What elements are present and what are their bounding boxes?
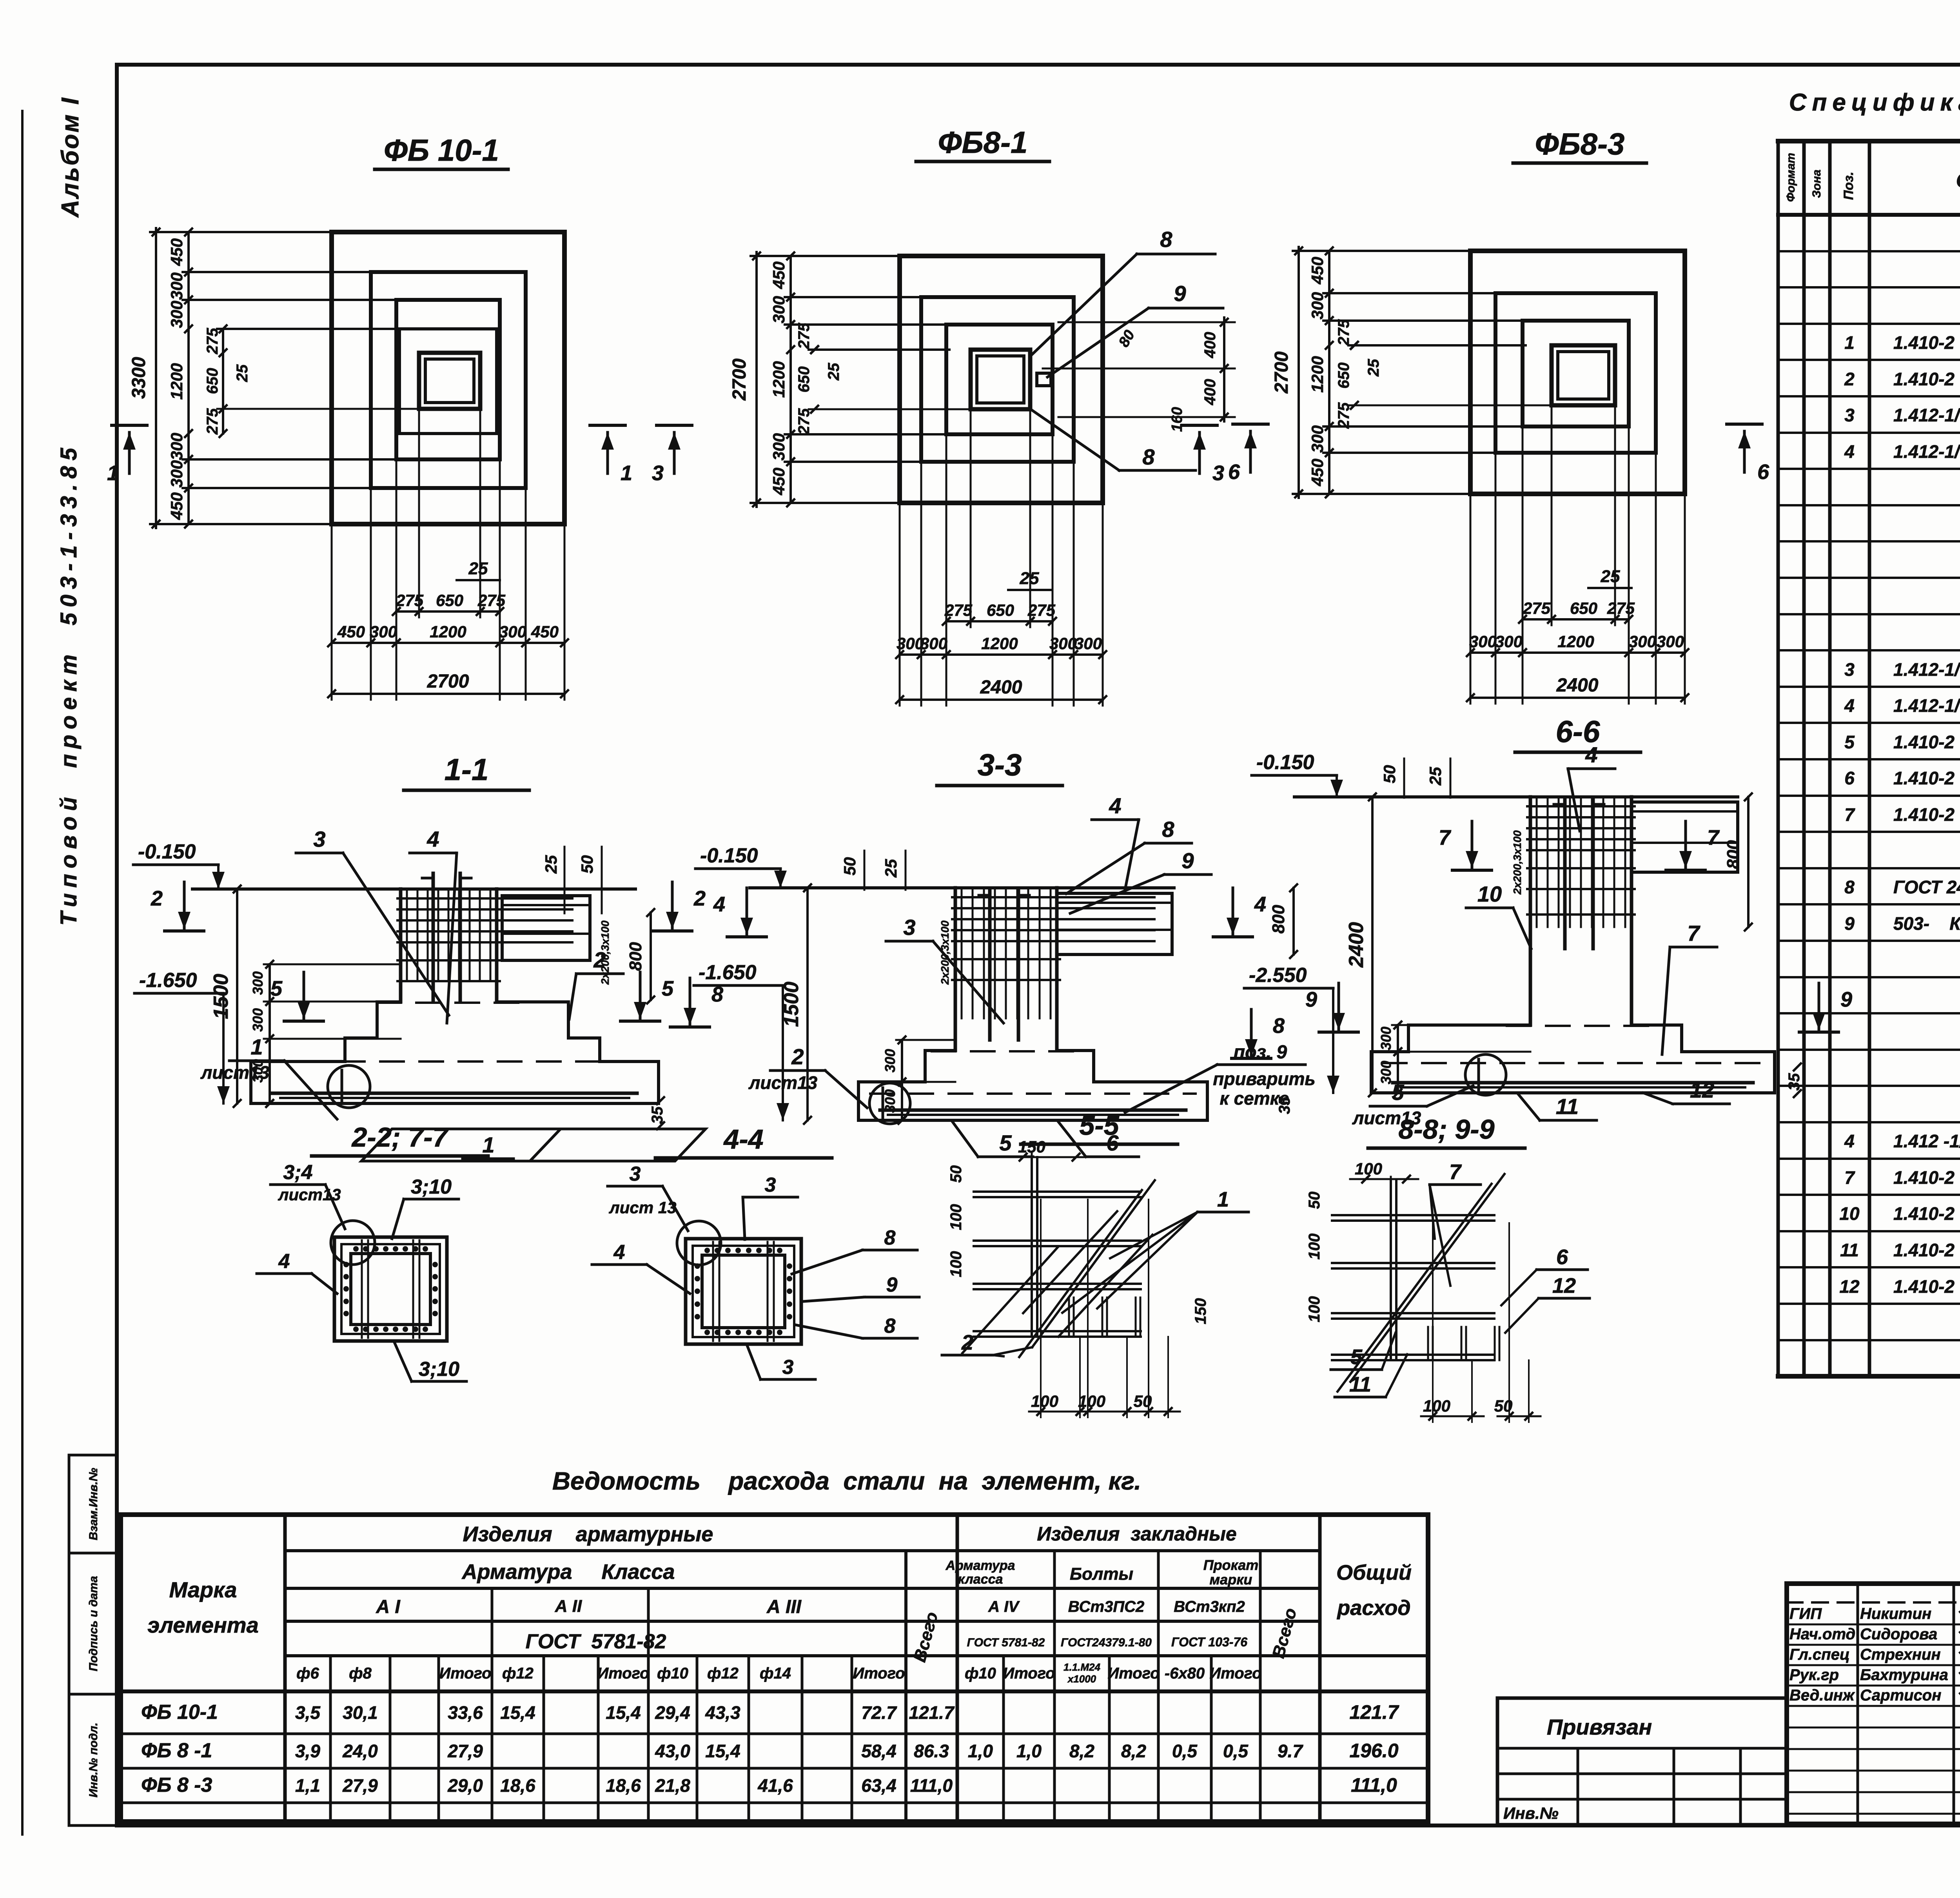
svg-text:300: 300	[1378, 1027, 1394, 1050]
svg-text:450: 450	[769, 468, 788, 495]
spec table grid	[1777, 141, 1780, 1376]
svg-text:650: 650	[204, 368, 221, 394]
svg-text:6: 6	[1757, 460, 1769, 484]
svg-text:1.412-1/77 вып.3: 1.412-1/77 вып.3	[1893, 441, 1960, 462]
plan ФБ8-3 step 2	[1495, 293, 1656, 453]
svg-text:-0.150: -0.150	[1256, 751, 1314, 774]
detail 4-4 outer square	[686, 1239, 801, 1344]
svg-text:1.412-1/77 вып.3: 1.412-1/77 вып.3	[1893, 695, 1960, 716]
svg-text:121.7: 121.7	[909, 1702, 955, 1723]
svg-text:к сетке: к сетке	[1220, 1088, 1289, 1109]
detail 2-2; 7-7 inner square	[351, 1254, 430, 1325]
svg-text:Никитин: Никитин	[1860, 1605, 1931, 1622]
svg-text:2: 2	[693, 887, 706, 910]
svg-text:1200: 1200	[167, 363, 186, 399]
svg-text:300: 300	[769, 296, 788, 323]
section 1-1 ground line	[192, 887, 635, 891]
svg-text:6: 6	[1844, 768, 1855, 788]
section 1-1 cut markers	[183, 882, 186, 929]
svg-text:ГИП: ГИП	[1789, 1605, 1822, 1622]
section 6-6 left 300 chain	[1397, 1025, 1399, 1093]
svg-text:86.3: 86.3	[914, 1741, 949, 1761]
svg-text:ф10: ф10	[965, 1665, 996, 1682]
svg-text:300: 300	[882, 1049, 898, 1072]
svg-text:8: 8	[884, 1315, 896, 1337]
svg-text:Изделия закладные: Изделия закладные	[1037, 1523, 1236, 1545]
svg-text:5: 5	[1350, 1345, 1363, 1369]
svg-text:3;4: 3;4	[283, 1161, 312, 1184]
svg-text:ГОСТ 103-76: ГОСТ 103-76	[1171, 1635, 1247, 1649]
svg-text:7: 7	[1844, 804, 1855, 825]
svg-text:Поз.: Поз.	[1841, 172, 1856, 200]
plan ФБ8-1 step 2	[921, 297, 1074, 462]
svg-text:1: 1	[107, 461, 119, 485]
section 3-3 cut markers	[746, 888, 748, 935]
svg-text:5: 5	[1392, 1080, 1404, 1105]
svg-text:0,5: 0,5	[1172, 1741, 1198, 1761]
svg-text:400: 400	[1201, 332, 1219, 359]
svg-text:8: 8	[884, 1227, 896, 1249]
section 1-1 soil wedges	[361, 1129, 561, 1161]
svg-text:10: 10	[1839, 1203, 1860, 1224]
svg-text:7: 7	[1449, 1160, 1462, 1184]
plan ФБ8-1 bolt plate МН	[1037, 373, 1051, 386]
section 3-3 stepped footing	[858, 1051, 955, 1120]
svg-text:25: 25	[825, 363, 842, 381]
section 3-3 pedestal outline	[954, 888, 957, 1051]
section 1-1 height dim	[236, 889, 238, 1103]
svg-text:1.410-2 вып.1: 1.410-2 вып.1	[1893, 1240, 1960, 1260]
svg-text:300: 300	[167, 301, 186, 328]
svg-text:650: 650	[436, 591, 463, 610]
svg-text:100: 100	[947, 1251, 965, 1277]
svg-text:1: 1	[482, 1132, 494, 1157]
svg-text:1: 1	[250, 1034, 263, 1059]
svg-text:Инв.№: Инв.№	[1503, 1804, 1559, 1822]
svg-text:196.0: 196.0	[1349, 1740, 1398, 1762]
svg-text:Болты: Болты	[1070, 1564, 1133, 1584]
svg-text:5: 5	[999, 1130, 1012, 1155]
plan ФБ8-1 section marker left	[657, 424, 692, 427]
section 6-6 hidden edges dashed	[1507, 1025, 1655, 1027]
svg-text:300: 300	[882, 1089, 898, 1113]
svg-text:5: 5	[662, 977, 674, 1000]
svg-text:8-8; 9-9: 8-8; 9-9	[1398, 1114, 1494, 1145]
svg-text:Сартисон: Сартисон	[1860, 1687, 1941, 1704]
svg-text:275: 275	[204, 328, 221, 354]
svg-text:1.410-2 вып.1: 1.410-2 вып.1	[1893, 768, 1960, 788]
svg-text:650: 650	[1335, 363, 1352, 389]
svg-text:3: 3	[903, 915, 915, 940]
svg-text:1.1.М24: 1.1.М24	[1063, 1661, 1100, 1673]
svg-text:поз. 9: поз. 9	[1234, 1042, 1287, 1063]
svg-text:25: 25	[468, 559, 488, 578]
svg-text:18,6: 18,6	[606, 1775, 641, 1796]
svg-text:1200: 1200	[1308, 356, 1327, 392]
svg-text:4: 4	[278, 1250, 290, 1273]
svg-text:1: 1	[1844, 332, 1855, 353]
plan ФБ 10-1 left dimension chains	[155, 228, 157, 528]
section 3-3 rebar mesh	[961, 890, 963, 1018]
svg-text:Инв.№ подл.: Инв.№ подл.	[87, 1722, 100, 1797]
svg-text:43,0: 43,0	[655, 1741, 690, 1761]
svg-text:275: 275	[396, 591, 424, 610]
svg-text:6: 6	[1228, 460, 1240, 484]
svg-text:503- КЖИ-МН23;МН24: 503- КЖИ-МН23;МН24	[1893, 913, 1960, 934]
section 3-3 anchor bolts	[988, 891, 992, 1040]
svg-text:2: 2	[961, 1331, 973, 1354]
svg-text:Подпись и дата: Подпись и дата	[87, 1576, 100, 1671]
svg-text:5: 5	[1844, 732, 1855, 752]
svg-text:5-5: 5-5	[1079, 1110, 1119, 1141]
section 1-1 rebar mesh	[406, 891, 408, 980]
svg-text:ф8: ф8	[349, 1665, 372, 1682]
svg-text:50: 50	[1380, 765, 1399, 784]
svg-text:3: 3	[313, 827, 325, 851]
section 1-1 top plate box	[502, 896, 590, 960]
svg-text:1200: 1200	[769, 361, 788, 397]
svg-text:300: 300	[250, 971, 266, 995]
svg-text:2400: 2400	[980, 677, 1022, 698]
svg-text:15,4: 15,4	[606, 1702, 641, 1723]
svg-text:25: 25	[1426, 767, 1445, 786]
svg-text:Взам.Инв.№: Взам.Инв.№	[87, 1468, 100, 1541]
section 6-6 pedestal outline	[1529, 797, 1532, 1025]
svg-text:450: 450	[1308, 257, 1327, 285]
plan ФБ8-1 outer slab	[900, 256, 1103, 503]
svg-text:Итого: Итого	[439, 1665, 491, 1682]
svg-text:4: 4	[713, 893, 725, 916]
svg-text:11: 11	[1840, 1240, 1859, 1260]
svg-text:-2.550: -2.550	[1249, 964, 1307, 987]
svg-text:1,1: 1,1	[295, 1775, 320, 1796]
plan ФБ 10-1 horizontal extension lines	[150, 231, 564, 233]
svg-text:63,4: 63,4	[861, 1775, 897, 1796]
svg-text:30,1: 30,1	[343, 1702, 378, 1723]
svg-text:275: 275	[1027, 601, 1056, 619]
svg-text:450: 450	[531, 622, 559, 641]
svg-text:300: 300	[1469, 632, 1497, 651]
svg-text:400: 400	[1201, 379, 1219, 406]
svg-text:15,4: 15,4	[705, 1741, 740, 1761]
section 3-3 top plate box	[1057, 893, 1172, 954]
svg-text:3: 3	[765, 1174, 776, 1196]
svg-text:Арматура Класса: Арматура Класса	[461, 1560, 675, 1584]
section 3-3 base mesh bars	[880, 1109, 1186, 1112]
svg-text:Общий: Общий	[1336, 1561, 1412, 1584]
svg-text:2х200,3х100: 2х200,3х100	[1511, 830, 1523, 895]
detail 2-2; 7-7 mid square	[341, 1244, 440, 1334]
svg-text:лист13: лист13	[748, 1072, 818, 1093]
svg-text:150: 150	[1192, 1298, 1209, 1325]
svg-text:2400: 2400	[1556, 675, 1599, 696]
svg-text:1,0: 1,0	[968, 1741, 993, 1761]
svg-text:Нач.отд: Нач.отд	[1789, 1626, 1855, 1643]
svg-text:275: 275	[795, 323, 813, 349]
svg-text:ВСт3кп2: ВСт3кп2	[1174, 1598, 1245, 1615]
section 1-1 detail circle	[328, 1065, 370, 1108]
svg-text:650: 650	[795, 367, 813, 393]
svg-text:25: 25	[882, 859, 900, 878]
svg-text:Гл.спец: Гл.спец	[1789, 1646, 1850, 1663]
svg-text:650: 650	[1570, 599, 1597, 617]
svg-text:-0.150: -0.150	[700, 844, 758, 867]
svg-text:4: 4	[1585, 742, 1597, 767]
steel table outer	[121, 1515, 1428, 1822]
svg-text:100: 100	[1078, 1392, 1105, 1410]
svg-text:Итого: Итого	[853, 1665, 905, 1682]
svg-text:450: 450	[769, 261, 788, 289]
svg-text:300: 300	[167, 272, 186, 300]
svg-text:111,0: 111,0	[910, 1775, 953, 1796]
svg-text:27,9: 27,9	[447, 1741, 483, 1761]
svg-text:3: 3	[1844, 659, 1855, 680]
plan ФБ8-1 pedestal block	[949, 348, 1049, 351]
svg-text:800: 800	[1269, 905, 1288, 934]
svg-text:1-1: 1-1	[445, 752, 489, 787]
svg-text:1.412-1/77 вып.3: 1.412-1/77 вып.3	[1893, 405, 1960, 425]
svg-text:25: 25	[1365, 359, 1382, 377]
svg-text:275: 275	[1607, 599, 1635, 617]
signature column	[1857, 1584, 1859, 1824]
section 6-6 anchor bolts	[1563, 800, 1567, 949]
svg-text:1.410-2 вып.1: 1.410-2 вып.1	[1893, 1167, 1960, 1188]
svg-text:Формат: Формат	[1784, 153, 1797, 202]
svg-text:-1.650: -1.650	[139, 969, 197, 992]
svg-text:ф10: ф10	[657, 1665, 688, 1682]
svg-text:3,5: 3,5	[295, 1702, 321, 1723]
svg-text:Бахтурина: Бахтурина	[1860, 1666, 1948, 1684]
view 8-8; 9-9 dims	[1350, 1178, 1418, 1180]
svg-text:8: 8	[1160, 227, 1172, 252]
svg-text:2-2; 7-7: 2-2; 7-7	[351, 1122, 449, 1152]
svg-text:7: 7	[1707, 826, 1720, 849]
svg-text:1.412-1/77 вып.3: 1.412-1/77 вып.3	[1893, 659, 1960, 680]
svg-text:275: 275	[944, 601, 973, 619]
svg-text:1200: 1200	[1557, 632, 1594, 651]
svg-text:ФБ 8 -1: ФБ 8 -1	[141, 1739, 212, 1762]
svg-text:58,4: 58,4	[861, 1741, 897, 1761]
svg-text:Обозначение: Обозначение	[1956, 169, 1960, 192]
view 5-5 mesh bars	[974, 1190, 1141, 1193]
svg-text:8: 8	[1162, 817, 1174, 842]
svg-text:300: 300	[167, 460, 186, 488]
view 8-8; 9-9 mesh bars	[1332, 1214, 1494, 1216]
svg-text:3: 3	[630, 1163, 641, 1185]
svg-text:А III: А III	[766, 1597, 802, 1617]
plan ФБ8-1 left dimension chains	[755, 252, 758, 507]
svg-text:27,9: 27,9	[342, 1775, 378, 1796]
section 1-1 left 300 chain	[269, 964, 271, 1103]
svg-text:А II: А II	[555, 1597, 582, 1616]
svg-text:300: 300	[1657, 632, 1684, 651]
svg-text:ВСт3ПС2: ВСт3ПС2	[1068, 1598, 1145, 1615]
svg-text:800: 800	[1724, 840, 1743, 869]
svg-text:Итого: Итого	[1107, 1665, 1160, 1682]
svg-text:2х200,3х100: 2х200,3х100	[939, 920, 951, 985]
section 6-6 base mesh bars	[1393, 1081, 1753, 1085]
svg-text:ФБ8-3: ФБ8-3	[1535, 127, 1625, 161]
svg-text:ФБ 10-1: ФБ 10-1	[141, 1701, 218, 1724]
svg-text:ГОСТ24379.1-80: ГОСТ24379.1-80	[1061, 1636, 1152, 1649]
section 3-3 left 300 chain	[901, 1040, 903, 1120]
svg-text:2700: 2700	[729, 358, 750, 401]
svg-text:9: 9	[1840, 988, 1852, 1011]
svg-text:4: 4	[1844, 1131, 1855, 1151]
section 6-6 rebar mesh	[1536, 799, 1538, 927]
margin stamp boxes	[69, 1455, 117, 1553]
svg-text:7: 7	[1687, 921, 1700, 945]
svg-text:4-4: 4-4	[723, 1124, 763, 1154]
svg-text:2: 2	[791, 1044, 804, 1069]
svg-text:3300: 3300	[129, 357, 149, 399]
svg-text:Спецификация монолитных желе: Спецификация монолитных железобетонных	[1789, 89, 1960, 116]
svg-text:121.7: 121.7	[1349, 1701, 1399, 1723]
svg-text:300: 300	[769, 433, 788, 461]
section 3-3 ground line	[750, 886, 1174, 889]
section 1-1 base mesh bars	[272, 1092, 637, 1095]
svg-text:4: 4	[613, 1241, 625, 1264]
svg-text:100: 100	[1355, 1159, 1382, 1178]
detail 4-4 rebar dots	[704, 1248, 710, 1253]
detail 4-4 corner circle	[677, 1221, 721, 1265]
svg-text:Привязан: Привязан	[1547, 1715, 1652, 1739]
plan ФБ8-1 step 3 / pedestal	[946, 325, 1053, 434]
svg-text:5: 5	[270, 977, 283, 1000]
svg-text:1.410-2 вып.1: 1.410-2 вып.1	[1893, 1276, 1960, 1297]
svg-text:300: 300	[250, 1008, 266, 1032]
svg-text:8: 8	[1844, 877, 1855, 897]
svg-text:Марка: Марка	[169, 1577, 237, 1602]
view 5-5 dims	[1007, 1156, 1088, 1158]
section 1-1 stepped footing	[251, 1002, 401, 1103]
svg-text:150: 150	[1018, 1138, 1045, 1156]
plan ФБ 10-1 pedestal block	[399, 329, 497, 434]
plan ФБ8-3 anchor square	[1552, 345, 1615, 405]
svg-text:ф6: ф6	[296, 1665, 319, 1682]
svg-text:12: 12	[1690, 1078, 1714, 1102]
svg-text:7: 7	[1439, 826, 1452, 849]
svg-text:приварить: приварить	[1213, 1069, 1315, 1089]
svg-text:11: 11	[1349, 1373, 1371, 1396]
plan ФБ8-3 step 3 / pedestal	[1523, 321, 1629, 426]
svg-text:100: 100	[1306, 1234, 1323, 1260]
svg-text:х1000: х1000	[1067, 1673, 1096, 1685]
svg-text:8,2: 8,2	[1121, 1741, 1146, 1761]
svg-text:6: 6	[1556, 1245, 1568, 1269]
svg-text:300: 300	[1629, 632, 1656, 651]
section 1-1 pedestal outline	[399, 889, 403, 1002]
detail 2-2; 7-7 outer square	[334, 1237, 447, 1341]
svg-text:4: 4	[1844, 695, 1855, 716]
svg-text:ФБ 10-1: ФБ 10-1	[384, 133, 499, 167]
svg-text:2700: 2700	[1271, 351, 1292, 394]
svg-text:160: 160	[1169, 407, 1185, 432]
svg-text:9: 9	[1305, 988, 1317, 1011]
svg-text:800: 800	[626, 942, 645, 971]
svg-text:12: 12	[1552, 1274, 1576, 1297]
section 3-3 hidden edges dashed	[932, 1050, 1080, 1052]
plan ФБ 10-1 bottom dimension chains	[331, 524, 333, 700]
svg-text:ФБ8-1: ФБ8-1	[938, 125, 1028, 160]
svg-text:Ведомость расхода стали н: Ведомость расхода стали на элемент, кг.	[552, 1467, 1141, 1495]
section 6-6 height dim	[1371, 797, 1374, 1093]
svg-text:1200: 1200	[430, 622, 466, 641]
plan ФБ8-1 horizontal extension lines	[751, 255, 1103, 257]
detail 2-2; 7-7 corner circle	[331, 1221, 375, 1265]
detail 2-2; 7-7 rebar dots	[353, 1246, 359, 1252]
svg-text:100: 100	[1031, 1392, 1058, 1410]
svg-text:50: 50	[1134, 1392, 1152, 1410]
svg-text:9: 9	[886, 1274, 898, 1296]
svg-text:Итого: Итого	[1209, 1665, 1261, 1682]
svg-text:25: 25	[542, 855, 560, 874]
svg-text:ф14: ф14	[760, 1665, 791, 1682]
svg-text:ГОСТ 5781-82: ГОСТ 5781-82	[526, 1630, 666, 1653]
svg-text:-0.150: -0.150	[138, 840, 196, 863]
detail 4-4 mid square	[693, 1246, 794, 1337]
svg-text:111,0: 111,0	[1351, 1774, 1397, 1796]
svg-text:3;10: 3;10	[419, 1358, 459, 1381]
svg-text:300: 300	[1308, 425, 1327, 453]
svg-text:1,0: 1,0	[1016, 1741, 1042, 1761]
svg-text:1.410-2 вып.1: 1.410-2 вып.1	[1893, 1203, 1960, 1224]
svg-text:100: 100	[947, 1204, 965, 1230]
plan ФБ 10-1 step 2	[371, 272, 526, 488]
svg-text:1500: 1500	[780, 982, 803, 1027]
svg-text:3: 3	[652, 461, 664, 485]
svg-text:450: 450	[167, 238, 186, 266]
svg-text:лист 13: лист 13	[609, 1198, 677, 1217]
svg-text:1: 1	[1217, 1188, 1229, 1211]
section 6-6 ground line	[1294, 795, 1738, 798]
svg-text:4: 4	[1844, 441, 1855, 462]
section 6-6 cut markers	[1471, 821, 1474, 868]
svg-text:2700: 2700	[427, 671, 469, 692]
svg-text:300: 300	[1308, 292, 1327, 319]
svg-text:Типовой проект 503-1-33.85: Типовой проект 503-1-33.85	[56, 443, 82, 926]
svg-text:расход: расход	[1336, 1596, 1410, 1620]
svg-text:А IV: А IV	[988, 1598, 1020, 1615]
svg-text:450: 450	[1308, 459, 1327, 486]
svg-text:2: 2	[1844, 369, 1855, 389]
svg-text:450: 450	[337, 622, 365, 641]
svg-text:Сидорова: Сидорова	[1860, 1626, 1937, 1643]
svg-text:41,6: 41,6	[757, 1775, 793, 1796]
plan ФБ8-1 bottom dimension chains	[899, 503, 901, 706]
svg-text:50: 50	[840, 857, 859, 876]
svg-text:275: 275	[1335, 319, 1352, 346]
view 5-5 diagonal bars	[1032, 1180, 1155, 1347]
svg-text:72.7: 72.7	[861, 1702, 897, 1723]
svg-text:3,9: 3,9	[295, 1741, 320, 1761]
svg-text:3-3: 3-3	[978, 748, 1022, 782]
plan ФБ8-3 horizontal extension lines	[1293, 250, 1685, 252]
svg-text:24,0: 24,0	[342, 1741, 378, 1761]
svg-text:7: 7	[1844, 1167, 1855, 1188]
svg-text:1.410-2 вып.1: 1.410-2 вып.1	[1893, 732, 1960, 752]
svg-text:Прокат: Прокат	[1203, 1557, 1259, 1573]
plan ФБ 10-1 section marker left	[112, 424, 147, 427]
plan ФБ8-3 left dimension chains	[1298, 247, 1300, 498]
plan ФБ 10-1 section marker right	[590, 424, 625, 427]
steel table horizontal rules	[285, 1549, 1320, 1552]
svg-text:100: 100	[1306, 1296, 1323, 1323]
svg-text:43,3: 43,3	[705, 1702, 740, 1723]
svg-text:3: 3	[1212, 461, 1224, 485]
svg-text:50: 50	[578, 855, 596, 874]
svg-text:Итого: Итого	[597, 1665, 649, 1682]
